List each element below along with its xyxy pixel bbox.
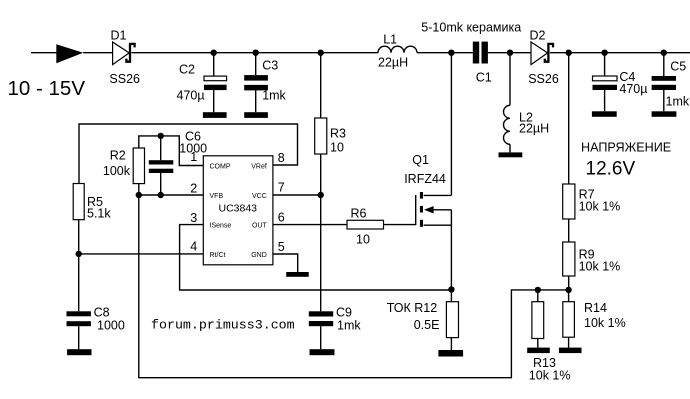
svg-text:UC3843: UC3843 bbox=[219, 202, 258, 214]
wire R7 top lead bbox=[568, 53, 570, 184]
svg-text:1mk: 1mk bbox=[666, 95, 690, 109]
svg-text:IRFZ44: IRFZ44 bbox=[404, 172, 446, 186]
svg-text:100k: 100k bbox=[103, 164, 131, 178]
inductor L2 bbox=[504, 53, 511, 153]
svg-text:0.5E: 0.5E bbox=[414, 318, 440, 332]
svg-text:470µ: 470µ bbox=[619, 82, 647, 96]
svg-text:R14: R14 bbox=[584, 301, 607, 315]
svg-text:COMP: COMP bbox=[210, 163, 231, 170]
node C4 rail bbox=[601, 50, 607, 56]
ground C4 bbox=[592, 111, 617, 117]
node R7 rail bbox=[566, 50, 572, 56]
svg-text:6: 6 bbox=[278, 211, 285, 225]
wire L1 to C1 bbox=[417, 52, 473, 54]
capacitor C3 bbox=[244, 53, 268, 112]
ground C2 bbox=[203, 112, 227, 118]
wire R2 bottom lead bbox=[138, 184, 140, 195]
node RtCt bbox=[76, 251, 82, 257]
node VFB R2 bbox=[136, 192, 142, 198]
capacitor C8 bbox=[67, 254, 91, 349]
svg-text:2: 2 bbox=[190, 182, 197, 196]
svg-text:1000: 1000 bbox=[97, 319, 125, 333]
svg-text:SS26: SS26 bbox=[109, 72, 140, 86]
wire D1 to L1 bbox=[132, 52, 379, 54]
ground C9 bbox=[310, 349, 335, 355]
wire OUT pin6 bbox=[273, 224, 347, 226]
svg-text:Rt/Ct: Rt/Ct bbox=[210, 252, 226, 259]
resistor R6 bbox=[347, 220, 384, 229]
resistor R2 bbox=[133, 148, 144, 184]
transistor Q1 bbox=[416, 192, 452, 290]
svg-text:10k 1%: 10k 1% bbox=[529, 368, 571, 382]
capacitor C5 bbox=[652, 53, 676, 112]
wire input left bbox=[31, 52, 57, 54]
svg-text:VCC: VCC bbox=[252, 193, 267, 200]
svg-text:D1: D1 bbox=[111, 29, 127, 43]
svg-text:10: 10 bbox=[356, 233, 370, 247]
node C6 top bbox=[158, 133, 164, 139]
wire Q1 drain to rail bbox=[450, 53, 452, 196]
svg-text:ISense: ISense bbox=[210, 223, 232, 230]
resistor R13 bbox=[532, 290, 544, 348]
wire ISense net bbox=[180, 225, 452, 290]
resistor R14 bbox=[563, 290, 575, 348]
svg-text:C1: C1 bbox=[476, 71, 492, 85]
resistor R9 bbox=[563, 242, 575, 276]
svg-text:GND: GND bbox=[251, 252, 267, 259]
svg-text:3: 3 bbox=[190, 211, 197, 225]
svg-text:SS26: SS26 bbox=[528, 72, 559, 86]
resistor R7 bbox=[563, 184, 575, 219]
svg-text:10 - 15V: 10 - 15V bbox=[8, 77, 86, 100]
svg-text:Q1: Q1 bbox=[412, 153, 429, 167]
resistor R3 bbox=[315, 118, 327, 154]
svg-text:1mk: 1mk bbox=[337, 319, 361, 333]
wire VCC pin7 bbox=[273, 194, 321, 196]
svg-text:forum.primuss3.com: forum.primuss3.com bbox=[151, 318, 295, 333]
wire pin5 GND bbox=[273, 254, 298, 272]
wire D2 to right edge bbox=[550, 52, 690, 54]
node C2 rail bbox=[211, 50, 217, 56]
wire R6 to gate bbox=[384, 224, 416, 226]
node R3 rail bbox=[318, 50, 324, 56]
wire C1 to D2 bbox=[488, 52, 531, 54]
capacitor C6 bbox=[149, 136, 174, 195]
ground L2 bbox=[499, 152, 523, 157]
diode D1 bbox=[113, 42, 135, 65]
svg-text:5-10mk керамика: 5-10mk керамика bbox=[421, 21, 521, 35]
svg-text:VRef: VRef bbox=[251, 163, 267, 170]
ground R13 bbox=[527, 348, 550, 354]
svg-text:C2: C2 bbox=[179, 62, 195, 76]
capacitor C1 bbox=[473, 42, 488, 64]
node R12 top bbox=[448, 286, 454, 292]
svg-text:5: 5 bbox=[278, 240, 285, 254]
wire arrow to D1 bbox=[83, 52, 112, 54]
svg-text:7: 7 bbox=[278, 181, 285, 195]
wire R7 to R9 bbox=[568, 219, 570, 242]
svg-text:C3: C3 bbox=[262, 59, 278, 73]
svg-text:OUT: OUT bbox=[252, 223, 268, 230]
diode D2 bbox=[531, 42, 553, 65]
svg-text:10k 1%: 10k 1% bbox=[584, 316, 626, 330]
svg-text:4: 4 bbox=[190, 240, 197, 254]
ground R14 bbox=[559, 348, 582, 354]
node Q1 drain rail bbox=[448, 50, 454, 56]
svg-text:НАПРЯЖЕНИЕ: НАПРЯЖЕНИЕ bbox=[581, 140, 671, 154]
node C5 rail bbox=[661, 50, 667, 56]
ground C3 bbox=[244, 112, 268, 118]
capacitor C9 bbox=[309, 195, 333, 349]
node C3 rail bbox=[253, 50, 259, 56]
wire R3 bottom lead bbox=[320, 154, 322, 195]
node R14 top bbox=[565, 287, 571, 293]
wire pin4 RtCt bbox=[79, 253, 204, 255]
op-amp U1 UC3843 box bbox=[203, 156, 273, 265]
svg-text:R6: R6 bbox=[351, 207, 367, 221]
svg-text:10: 10 bbox=[330, 141, 344, 155]
svg-text:R3: R3 bbox=[330, 127, 346, 141]
inductor L1 bbox=[378, 46, 417, 52]
svg-text:R2: R2 bbox=[110, 149, 126, 163]
svg-text:5.1k: 5.1k bbox=[87, 206, 111, 220]
wire feedback loop bbox=[139, 195, 569, 378]
svg-text:12.6V: 12.6V bbox=[586, 158, 636, 179]
svg-text:8: 8 bbox=[278, 151, 285, 165]
wire COMP net bbox=[139, 136, 204, 166]
resistor R5 bbox=[73, 184, 84, 220]
capacitor C4 bbox=[593, 53, 618, 112]
svg-text:22µH: 22µH bbox=[519, 121, 549, 135]
capacitor C2 bbox=[204, 53, 227, 112]
ground C8 bbox=[67, 349, 91, 355]
svg-text:L1: L1 bbox=[383, 33, 397, 47]
svg-text:C5: C5 bbox=[670, 59, 686, 73]
svg-text:10k 1%: 10k 1% bbox=[579, 260, 621, 274]
svg-text:C8: C8 bbox=[94, 306, 110, 320]
svg-text:1: 1 bbox=[190, 150, 197, 164]
node R13 top bbox=[535, 287, 541, 293]
svg-text:VFB: VFB bbox=[210, 193, 224, 200]
wire R3 top lead bbox=[320, 53, 322, 118]
svg-text:D2: D2 bbox=[530, 29, 546, 43]
node VCC bbox=[318, 192, 324, 198]
wire VFB to IC bbox=[139, 194, 204, 196]
node VFB C6 bbox=[158, 192, 164, 198]
ground pin5 bbox=[286, 272, 309, 277]
resistor R12 bbox=[446, 290, 458, 351]
wire R5 to node bbox=[78, 220, 80, 254]
input arrow bbox=[56, 44, 83, 63]
ground C5 bbox=[652, 111, 677, 117]
svg-text:1mk: 1mk bbox=[262, 89, 286, 103]
svg-text:C9: C9 bbox=[336, 306, 352, 320]
node L2 rail bbox=[507, 50, 513, 56]
svg-text:ТОК R12: ТОК R12 bbox=[387, 301, 438, 315]
svg-text:22µH: 22µH bbox=[378, 56, 408, 70]
wire R9 bottom lead bbox=[568, 276, 570, 290]
svg-text:470µ: 470µ bbox=[177, 89, 205, 103]
wire VRef net bbox=[79, 124, 298, 184]
svg-text:10k 1%: 10k 1% bbox=[579, 199, 621, 213]
ground R12 bbox=[438, 350, 463, 357]
